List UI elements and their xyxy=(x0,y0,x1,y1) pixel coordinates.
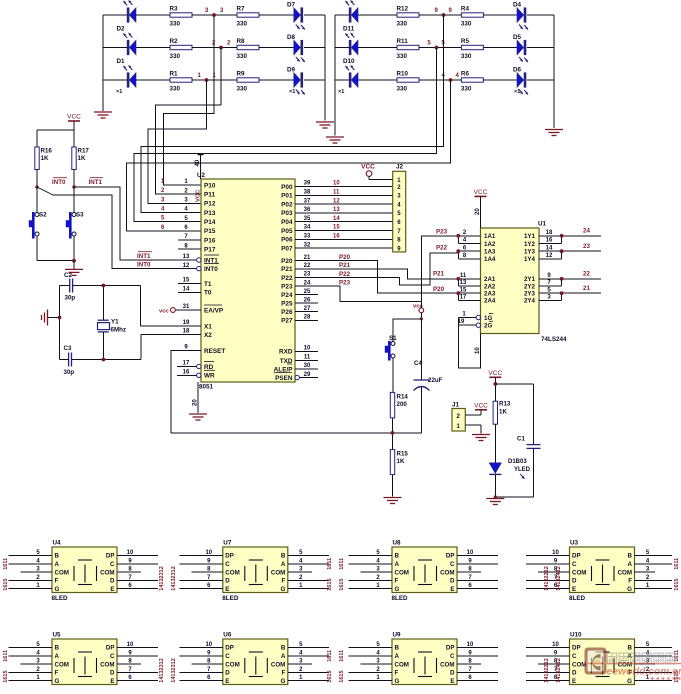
wire LED to resistor xyxy=(358,79,397,81)
wire U8 left pin 3 xyxy=(361,571,393,573)
svg-text:22uF: 22uF xyxy=(428,377,443,384)
wire tie 2A1-2A2 xyxy=(457,279,459,286)
svg-text:R3: R3 xyxy=(170,6,179,13)
svg-text:8LED: 8LED xyxy=(222,595,239,602)
LED D3 xyxy=(127,7,130,22)
wire U3 left pin 10 xyxy=(526,555,570,557)
svg-text:P21: P21 xyxy=(281,266,293,273)
wire row to junction xyxy=(419,14,461,16)
wire U4 left pin 5 xyxy=(9,555,53,557)
wire U4 left pin 2 xyxy=(9,579,53,581)
svg-text:P23: P23 xyxy=(339,279,351,286)
wire U9 left pin 2 xyxy=(349,671,393,673)
LED D11 xyxy=(345,33,358,56)
svg-text:U10: U10 xyxy=(570,632,582,639)
wire net 9 row1-right to P13 xyxy=(141,15,444,213)
svg-text:P20: P20 xyxy=(339,254,351,261)
wire P06 to J2 pin 8 xyxy=(295,238,393,240)
switch S3 xyxy=(73,187,75,213)
svg-text:1K: 1K xyxy=(41,155,49,162)
svg-text:1615: 1615 xyxy=(3,578,9,590)
wire tie 1A1-1A2 xyxy=(457,236,459,244)
wire tie 2Y3-2Y4 out 21 xyxy=(561,293,563,300)
svg-text:31: 31 xyxy=(183,304,190,310)
svg-text:1K: 1K xyxy=(499,409,507,416)
wire U10 left pin 6 xyxy=(526,680,570,682)
wire U6 left pin 6 xyxy=(179,680,223,682)
wire P21 net MCU to U1 xyxy=(295,269,458,279)
svg-text:2A3: 2A3 xyxy=(484,291,496,298)
wire U9 left pin 1 xyxy=(349,680,393,682)
svg-text:330: 330 xyxy=(237,86,248,93)
wire P01 to J2 pin 3 xyxy=(295,194,393,196)
svg-text:VCC: VCC xyxy=(196,189,202,202)
svg-text:R6: R6 xyxy=(461,71,470,78)
capacitor C3 xyxy=(69,353,72,367)
wire crystal loop left xyxy=(59,286,61,360)
svg-text:22: 22 xyxy=(304,263,311,269)
wire tie 1Y1-1Y2 out 24 xyxy=(561,236,563,244)
pin 20 ground xyxy=(197,382,199,413)
svg-text:10: 10 xyxy=(127,642,134,648)
svg-text:INT1: INT1 xyxy=(89,179,103,186)
svg-text:15: 15 xyxy=(460,287,467,293)
wire U7 left pin 9 xyxy=(179,563,223,565)
wire P03 to J2 pin 5 xyxy=(295,212,393,214)
resistor R13 1K xyxy=(493,401,497,424)
svg-text:12: 12 xyxy=(183,263,190,269)
node 2 left bank xyxy=(219,46,223,50)
ground R15 xyxy=(392,475,394,497)
wire U5 left pin 4 xyxy=(9,655,53,657)
svg-text:10: 10 xyxy=(205,550,212,556)
svg-text:330: 330 xyxy=(170,86,181,93)
svg-text:14: 14 xyxy=(546,245,553,251)
svg-text:330: 330 xyxy=(461,21,472,28)
svg-text:INT0: INT0 xyxy=(204,266,218,273)
ground LED indicator xyxy=(486,499,504,505)
svg-text:P15: P15 xyxy=(204,228,216,235)
svg-text:R7: R7 xyxy=(237,6,246,13)
resistor R9 330 xyxy=(237,78,259,82)
buffer U1 74LS244 body xyxy=(481,228,540,334)
wire U9 left pin 5 xyxy=(349,647,393,649)
wire row to junction xyxy=(192,14,237,16)
svg-text:P25: P25 xyxy=(281,301,293,308)
svg-text:10: 10 xyxy=(475,347,481,354)
svg-text:16: 16 xyxy=(546,238,553,244)
resistor R17 1K xyxy=(72,147,76,170)
op-amp U2 8051 MCU body xyxy=(201,179,295,382)
wire LED to R1 xyxy=(136,79,170,81)
wire vcc to S1 and C4 xyxy=(420,313,422,319)
svg-text:1615: 1615 xyxy=(674,578,680,590)
wire U10 left pin 9 xyxy=(526,655,570,657)
wire R9 to diode xyxy=(259,79,294,81)
svg-text:X2: X2 xyxy=(204,332,212,339)
svg-text:34: 34 xyxy=(304,225,311,231)
svg-text:16: 16 xyxy=(183,370,190,376)
LED D4 xyxy=(517,8,524,23)
svg-text:R15: R15 xyxy=(397,451,409,458)
wire U6 left pin 9 xyxy=(179,655,223,657)
svg-text:P27: P27 xyxy=(281,318,293,325)
svg-text:2Y2: 2Y2 xyxy=(524,283,536,290)
svg-text:11: 11 xyxy=(333,190,340,196)
wire tie 2A3-2A4 xyxy=(457,293,459,300)
wire U9 right pin 8 xyxy=(457,663,481,665)
wire U10 right pin 1 xyxy=(635,680,673,682)
svg-text:330: 330 xyxy=(170,53,181,60)
svg-text:P22: P22 xyxy=(281,275,293,282)
svg-text:13: 13 xyxy=(183,254,190,260)
svg-text:1611: 1611 xyxy=(3,650,9,662)
svg-text:C3: C3 xyxy=(64,345,72,352)
wire 1G 2G to pin 10 gnd loop xyxy=(459,318,481,368)
wire P22 net MCU to U1 xyxy=(295,253,458,285)
wire U8 left pin 1 xyxy=(349,588,393,590)
svg-text:×1: ×1 xyxy=(338,89,344,95)
svg-text:D6: D6 xyxy=(513,67,522,74)
svg-text:330: 330 xyxy=(170,21,181,28)
switch S2 xyxy=(36,187,38,213)
wire U9 left pin 3 xyxy=(361,663,393,665)
LED D6 xyxy=(517,73,524,88)
wire U5 right pin 7 xyxy=(117,671,158,673)
svg-text:R12: R12 xyxy=(397,6,409,13)
wire U4 right pin 10 xyxy=(117,555,158,557)
wire X1 xyxy=(140,286,142,327)
svg-text:10: 10 xyxy=(333,181,340,187)
svg-text:2Y1: 2Y1 xyxy=(524,276,536,283)
svg-text:U4: U4 xyxy=(53,540,62,547)
svg-text:2A4: 2A4 xyxy=(484,298,496,305)
wire diode to right rail xyxy=(527,47,554,49)
wire right bank left rail xyxy=(334,15,336,136)
resistor R16 1K xyxy=(35,147,39,170)
svg-text:8LED: 8LED xyxy=(52,595,69,602)
LED D1 xyxy=(127,72,130,87)
svg-text:11: 11 xyxy=(460,273,467,279)
wire net 4 row3-right to P15 xyxy=(127,80,451,231)
wire U3 left pin 7 xyxy=(526,579,570,581)
svg-text:R2: R2 xyxy=(170,38,179,45)
svg-text:330: 330 xyxy=(397,53,408,60)
wire U3 left pin 6 xyxy=(526,588,570,590)
svg-text:P14: P14 xyxy=(204,219,216,226)
svg-text:P03: P03 xyxy=(281,210,293,217)
svg-text:8LED: 8LED xyxy=(392,595,409,602)
svg-text:18: 18 xyxy=(546,230,553,236)
svg-text:J2: J2 xyxy=(396,164,404,171)
wire R17 to INT1 node xyxy=(73,170,75,188)
LED D10 xyxy=(345,65,358,88)
svg-text:R5: R5 xyxy=(461,38,470,45)
svg-text:R14: R14 xyxy=(397,394,409,401)
wire R16 to INT0 node xyxy=(36,170,38,188)
wire U7 right pin 5 xyxy=(288,555,329,557)
svg-text:INT1: INT1 xyxy=(137,253,151,260)
svg-text:YLED: YLED xyxy=(514,467,531,473)
wire P20 net MCU to U1 xyxy=(295,261,458,294)
svg-text:30p: 30p xyxy=(65,295,76,302)
svg-text:30: 30 xyxy=(304,363,311,369)
wire U4 right pin 7 xyxy=(117,579,158,581)
svg-text:eeworld.com.cn: eeworld.com.cn xyxy=(607,667,681,678)
wire U6 left pin 8 xyxy=(191,663,223,665)
wire U9 right pin 10 xyxy=(457,647,498,649)
wire LED to resistor xyxy=(358,14,397,16)
display U9 8LED xyxy=(392,639,457,685)
svg-text:U5: U5 xyxy=(53,632,62,639)
wire U6 right pin 5 xyxy=(288,647,329,649)
wire R8 to diode xyxy=(259,47,294,49)
wire U8 right pin 10 xyxy=(457,555,498,557)
svg-text:2A1: 2A1 xyxy=(484,276,496,283)
wire row to junction xyxy=(419,79,461,81)
wire U6 right pin 3 xyxy=(288,663,312,665)
wire U4 right pin 8 xyxy=(117,571,141,573)
wire left bank left rail xyxy=(102,15,104,111)
wire LED to R3 xyxy=(136,14,170,16)
svg-text:26: 26 xyxy=(304,297,311,303)
svg-text:R13: R13 xyxy=(499,401,511,408)
wire resistor to diode xyxy=(483,14,517,16)
svg-text:R1: R1 xyxy=(170,71,179,78)
svg-text:1611: 1611 xyxy=(3,558,9,570)
wire diode to right rail xyxy=(304,79,325,81)
node 5 right bank xyxy=(435,46,439,50)
svg-text:P01: P01 xyxy=(281,193,293,200)
svg-text:10: 10 xyxy=(552,642,559,648)
wire U5 left pin 3 xyxy=(21,663,53,665)
svg-text:13: 13 xyxy=(333,207,340,213)
display U4 8LED xyxy=(52,547,117,593)
connector J1 xyxy=(452,409,465,432)
svg-text:14132212: 14132212 xyxy=(544,566,550,590)
svg-text:10: 10 xyxy=(467,550,474,556)
svg-text:RD: RD xyxy=(204,364,214,371)
ground switches xyxy=(73,261,75,269)
watermark eeworld logo xyxy=(585,648,681,681)
svg-text:14132312: 14132312 xyxy=(171,566,177,590)
svg-text:S3: S3 xyxy=(76,212,84,219)
svg-text:14132312: 14132312 xyxy=(159,658,165,682)
svg-text:P02: P02 xyxy=(281,201,293,208)
svg-text:R16: R16 xyxy=(41,148,53,155)
LED D7 xyxy=(294,8,301,23)
node 3 left bank xyxy=(212,13,216,17)
svg-text:14132212: 14132212 xyxy=(544,658,550,682)
svg-text:2Y4: 2Y4 xyxy=(524,298,536,305)
wire U4 left pin 3 xyxy=(21,571,53,573)
svg-text:27: 27 xyxy=(304,306,311,312)
LED D9 xyxy=(294,73,301,88)
svg-text:40: 40 xyxy=(195,159,201,166)
svg-text:VCC: VCC xyxy=(474,402,488,409)
svg-text:20: 20 xyxy=(193,399,199,406)
wire U3 right pin 1 xyxy=(635,588,673,590)
LED D2 xyxy=(127,40,130,55)
svg-text:EA/VP: EA/VP xyxy=(204,307,224,314)
wire U5 right pin 6 xyxy=(117,680,158,682)
svg-text:24: 24 xyxy=(583,228,590,235)
wire U8 right pin 6 xyxy=(457,588,498,590)
svg-text:P06: P06 xyxy=(281,237,293,244)
svg-text:39: 39 xyxy=(304,181,311,187)
wire row to junction xyxy=(192,79,237,81)
wire U5 right pin 8 xyxy=(117,663,141,665)
svg-text:RXD: RXD xyxy=(279,349,293,356)
svg-text:P23: P23 xyxy=(436,229,448,236)
wire switch commons xyxy=(36,236,38,261)
svg-text:R8: R8 xyxy=(237,38,246,45)
ground crystal xyxy=(48,317,60,319)
svg-text:2G: 2G xyxy=(484,323,492,330)
ground J1 xyxy=(472,435,490,441)
svg-text:23: 23 xyxy=(583,243,590,250)
svg-text:10: 10 xyxy=(304,346,311,352)
svg-text:P16: P16 xyxy=(204,237,216,244)
resistor R3 330 xyxy=(170,13,192,17)
svg-text:D7: D7 xyxy=(287,2,296,9)
wire row to junction xyxy=(192,47,237,49)
svg-text:330: 330 xyxy=(461,53,472,60)
svg-text:D9: D9 xyxy=(287,67,296,74)
svg-text:P24: P24 xyxy=(281,292,293,299)
crystal Y1 6Mhz xyxy=(102,286,104,321)
wire U3 right pin 4 xyxy=(635,563,673,565)
svg-text:×1: ×1 xyxy=(116,89,122,95)
wire U10 left pin 10 xyxy=(526,647,570,649)
wire diode to right rail xyxy=(527,79,554,81)
display U3 8LED xyxy=(570,547,635,593)
svg-text:14132312: 14132312 xyxy=(159,566,165,590)
LED D8 xyxy=(294,40,301,55)
wire R14 to junction xyxy=(392,418,394,450)
LED D13 xyxy=(489,463,501,474)
svg-text:1615: 1615 xyxy=(3,670,9,682)
svg-text:330: 330 xyxy=(397,21,408,28)
wire row to junction xyxy=(419,47,461,49)
svg-text:15: 15 xyxy=(183,278,190,284)
svg-text:8LED: 8LED xyxy=(569,595,586,602)
svg-text:10: 10 xyxy=(467,642,474,648)
wire U8 right pin 9 xyxy=(457,563,498,565)
resistor R5 330 xyxy=(461,45,483,49)
wire crystal loop bottom xyxy=(60,359,69,361)
svg-text:P23: P23 xyxy=(281,283,293,290)
svg-text:S1: S1 xyxy=(389,335,397,342)
svg-text:P21: P21 xyxy=(433,271,445,278)
svg-text:12: 12 xyxy=(546,253,553,259)
svg-text:200: 200 xyxy=(397,401,408,408)
svg-text:330: 330 xyxy=(237,53,248,60)
node 1 left bank xyxy=(205,78,209,82)
svg-text:P22: P22 xyxy=(436,245,448,252)
svg-text:37: 37 xyxy=(304,198,311,204)
svg-text:vcc: vcc xyxy=(159,309,169,315)
svg-text:U2: U2 xyxy=(197,172,206,179)
svg-text:1Y3: 1Y3 xyxy=(524,249,536,256)
node 4 right bank xyxy=(449,78,453,82)
wire J1 pin1 to ground xyxy=(465,424,481,426)
svg-text:1611: 1611 xyxy=(327,650,333,662)
wire R13 to D13 xyxy=(494,424,496,463)
svg-text:17: 17 xyxy=(460,295,467,301)
wire J1 pin2 to VCC xyxy=(465,414,481,416)
svg-text:D4: D4 xyxy=(513,2,522,9)
wire R7 to diode xyxy=(259,14,294,16)
svg-text:10: 10 xyxy=(552,550,559,556)
svg-text:35: 35 xyxy=(304,216,311,222)
svg-text:30p: 30p xyxy=(64,369,75,376)
svg-text:P11: P11 xyxy=(204,192,215,199)
ground left bank right rail xyxy=(316,122,334,128)
resistor R10 330 xyxy=(397,78,419,82)
svg-text:P12: P12 xyxy=(204,201,216,208)
resistor R15 1K xyxy=(390,450,394,475)
svg-text:29: 29 xyxy=(304,372,311,378)
ground right bank right rail xyxy=(545,130,563,136)
wire U8 left pin 2 xyxy=(349,579,393,581)
wire U5 left pin 1 xyxy=(9,680,53,682)
svg-text:21: 21 xyxy=(304,255,311,261)
wire U4 left pin 1 xyxy=(9,588,53,590)
wire U6 left pin 10 xyxy=(179,647,223,649)
wire net 5 row2-right to P14 xyxy=(134,48,436,222)
wire U9 right pin 7 xyxy=(457,671,498,673)
svg-text:17: 17 xyxy=(183,361,190,367)
wire U3 right pin 3 xyxy=(635,571,656,573)
svg-text:22: 22 xyxy=(583,271,590,278)
svg-text:330: 330 xyxy=(461,86,472,93)
LED D12 xyxy=(345,0,358,23)
wire net 3 row1-left to P10 xyxy=(164,15,215,185)
svg-text:1615: 1615 xyxy=(327,578,333,590)
wire U8 right pin 7 xyxy=(457,579,498,581)
wire U5 right pin 9 xyxy=(117,655,158,657)
svg-text:14: 14 xyxy=(183,287,190,293)
svg-text:1615: 1615 xyxy=(339,670,345,682)
svg-text:P17: P17 xyxy=(204,247,216,254)
svg-text:74LS244: 74LS244 xyxy=(541,336,567,343)
svg-text:P21: P21 xyxy=(339,262,351,269)
svg-text:10: 10 xyxy=(205,642,212,648)
svg-text:1A3: 1A3 xyxy=(484,249,496,256)
svg-text:14132412: 14132412 xyxy=(556,566,562,590)
wire P05 to J2 pin 7 xyxy=(295,230,393,232)
display U7 8LED xyxy=(223,547,288,593)
svg-text:1K: 1K xyxy=(78,155,86,162)
resistor R14 200 xyxy=(390,392,394,418)
wire VCC split to R16 R17 xyxy=(37,129,74,131)
svg-text:2Y3: 2Y3 xyxy=(524,291,536,298)
display U8 8LED xyxy=(392,547,457,593)
svg-text:J1: J1 xyxy=(452,402,460,409)
wire resistor to diode xyxy=(483,47,517,49)
svg-text:P00: P00 xyxy=(281,184,293,191)
ground right bank left rail xyxy=(326,137,344,143)
svg-text:24: 24 xyxy=(304,280,311,286)
svg-text:P10: P10 xyxy=(204,182,216,189)
wire D13 to ground xyxy=(494,474,496,497)
svg-text:330: 330 xyxy=(397,86,408,93)
resistor R8 330 xyxy=(237,45,259,49)
svg-text:R4: R4 xyxy=(461,6,470,13)
capacitor C2 xyxy=(70,279,73,293)
svg-text:INT0: INT0 xyxy=(52,179,66,186)
